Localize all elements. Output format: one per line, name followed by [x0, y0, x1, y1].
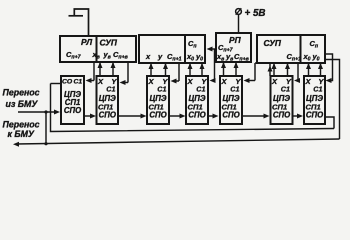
svg-text:к БМУ: к БМУ	[8, 129, 35, 139]
svg-text:у: у	[157, 52, 163, 61]
svg-text:+ 5В: + 5В	[245, 8, 266, 19]
svg-text:Перенос: Перенос	[3, 88, 40, 98]
svg-text:СПО: СПО	[273, 110, 290, 119]
svg-text:из БМУ: из БМУ	[6, 99, 39, 109]
svg-text:X: X	[271, 77, 278, 86]
svg-text:С1: С1	[313, 85, 322, 94]
svg-text:X: X	[148, 77, 155, 86]
svg-text:С1: С1	[157, 85, 166, 94]
svg-text:СУП: СУП	[100, 38, 118, 48]
svg-text:СПО: СПО	[188, 110, 205, 119]
svg-text:С1: С1	[281, 85, 290, 94]
svg-text:С1: С1	[230, 85, 239, 94]
svg-text:СУП: СУП	[264, 38, 282, 48]
svg-text:РЛ: РЛ	[81, 37, 92, 47]
svg-text:X: X	[221, 77, 228, 86]
svg-text:РП: РП	[229, 35, 242, 45]
svg-text:СПО: СПО	[99, 110, 116, 119]
svg-text:X: X	[97, 77, 104, 86]
svg-text:С1: С1	[196, 85, 205, 94]
svg-text:СПО: СПО	[64, 106, 81, 115]
svg-text:X: X	[187, 77, 194, 86]
svg-text:С1: С1	[74, 78, 83, 85]
svg-text:X: X	[305, 77, 312, 86]
svg-text:х: х	[145, 52, 151, 61]
svg-text:СПО: СПО	[149, 110, 166, 119]
svg-text:СПО: СПО	[222, 110, 239, 119]
svg-text:СПО: СПО	[306, 110, 323, 119]
svg-text:СО: СО	[62, 78, 73, 85]
svg-text:С1: С1	[106, 85, 115, 94]
